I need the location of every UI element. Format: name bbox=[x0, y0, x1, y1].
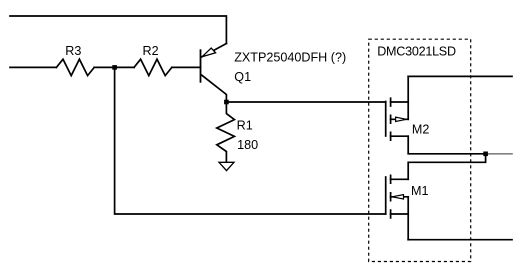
wire main input bbox=[10, 66, 56, 68]
mosfet M2 drain-body vertical bbox=[407, 76, 409, 119]
mosfet M1 body-source vertical bbox=[407, 197, 409, 240]
wire node to R2 bbox=[115, 66, 134, 68]
wire M1 source bottom bbox=[408, 239, 512, 241]
transistor Q1 base bar bbox=[200, 50, 202, 82]
wire R3 to node bbox=[94, 66, 114, 68]
wire top rail left bbox=[10, 16, 226, 44]
mosfet M1 channel segments bbox=[390, 175, 392, 218]
mosfet M1 body arrow bbox=[392, 195, 403, 199]
svg-text:R2: R2 bbox=[143, 44, 159, 58]
svg-text:DMC3021LSD: DMC3021LSD bbox=[377, 45, 456, 59]
dashed box DMC3021LSD bbox=[369, 39, 471, 261]
wire Q1 collector to M2 gate bbox=[226, 101, 385, 103]
svg-text:R1: R1 bbox=[237, 118, 253, 132]
wire M1 drain to output bbox=[408, 154, 485, 180]
resistor R1 bbox=[217, 102, 235, 162]
svg-text:180: 180 bbox=[237, 138, 258, 152]
svg-text:M2: M2 bbox=[412, 123, 430, 137]
mosfet M2 gate bar bbox=[385, 102, 387, 137]
ground bbox=[219, 162, 234, 170]
mosfet M1 gate bar bbox=[385, 177, 387, 214]
node junction output bbox=[483, 152, 488, 157]
mosfet M2 channel segments bbox=[390, 98, 392, 140]
svg-text:ZXTP25040DFH (?): ZXTP25040DFH (?) bbox=[234, 51, 346, 65]
resistor R3 bbox=[56, 59, 94, 75]
node junction Q1 collector bbox=[224, 100, 229, 105]
svg-text:R3: R3 bbox=[65, 44, 81, 58]
mosfet M2 stubs bbox=[391, 102, 409, 136]
mosfet M1 stubs bbox=[391, 179, 409, 214]
wire output gray bbox=[488, 153, 512, 155]
wire M2 drain rail bbox=[408, 75, 512, 77]
transistor Q1 emitter arrow bbox=[202, 48, 216, 57]
resistor R2 bbox=[134, 59, 172, 75]
wire M2 source down bbox=[408, 136, 488, 154]
transistor Q1 collector bbox=[202, 75, 227, 102]
svg-text:Q1: Q1 bbox=[234, 70, 251, 84]
wire R2 to Q1 base bbox=[172, 66, 201, 68]
node junction R3/R2 bbox=[112, 65, 117, 70]
svg-text:M1: M1 bbox=[411, 184, 429, 198]
mosfet M2 body arrow bbox=[396, 117, 407, 121]
wire node to M1 gate bbox=[115, 67, 386, 214]
transistor Q1 emitter bbox=[202, 44, 227, 57]
